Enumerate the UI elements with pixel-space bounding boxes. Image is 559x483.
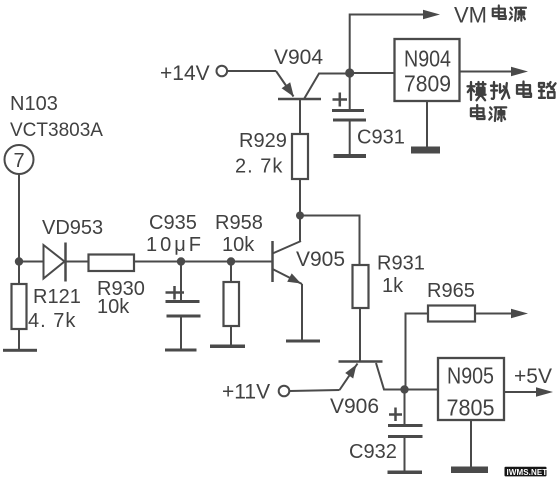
net +5V output arrow [504, 387, 553, 396]
ground under C932 [388, 471, 423, 475]
svg-text:2. 7k: 2. 7k [235, 156, 283, 178]
svg-text:4. 7k: 4. 7k [28, 310, 76, 332]
svg-text:10k: 10k [97, 296, 130, 318]
wire R930 to V905 base [134, 261, 273, 263]
svg-text:7: 7 [13, 150, 24, 172]
transistor V905 [273, 241, 346, 340]
R965 output arrow [475, 309, 528, 318]
svg-text:R958: R958 [215, 212, 263, 234]
pin 7 circle [5, 145, 34, 174]
svg-text:C935: C935 [149, 212, 197, 234]
wire node to diode [19, 261, 44, 263]
net name VM电源 [454, 3, 526, 28]
net label VM电源 arrow [350, 10, 440, 73]
net name 模拟电路 电源 [468, 82, 556, 121]
svg-text:C932: C932 [349, 441, 397, 463]
resistor R931 [353, 253, 425, 362]
svg-text:VM: VM [454, 3, 487, 28]
svg-text:10μF: 10μF [146, 234, 204, 256]
svg-text:R929: R929 [239, 130, 287, 152]
svg-text:R965: R965 [427, 280, 475, 302]
transistor V906 [330, 362, 405, 419]
regulator N904 7809 [395, 39, 460, 101]
svg-text:V906: V906 [330, 395, 379, 418]
svg-text:N905: N905 [447, 363, 494, 389]
terminal +14V [160, 62, 227, 85]
svg-text:R121: R121 [33, 286, 81, 308]
ground under R958 [210, 345, 245, 349]
output arrow 模拟电路电源 [460, 67, 529, 76]
wire node to R931 [300, 216, 360, 266]
node junction left [15, 257, 23, 265]
node junction V905 collector [296, 212, 304, 220]
svg-text:7809: 7809 [404, 71, 451, 97]
svg-text:+11V: +11V [222, 381, 270, 404]
capacitor C931 [332, 77, 405, 155]
node junction bottom [400, 385, 408, 393]
IC pin label N103 VCT3803A [10, 93, 103, 141]
svg-text:N103: N103 [10, 93, 58, 115]
resistor R929 [235, 130, 308, 241]
terminal +11V [222, 381, 289, 404]
node junction at top rail [345, 68, 354, 77]
svg-text:1k: 1k [382, 275, 404, 297]
wire +11V to V906 emitter [290, 390, 340, 391]
ground under N904 [411, 101, 440, 154]
svg-text:+5V: +5V [514, 365, 552, 388]
resistor R958 [215, 212, 263, 345]
transistor V904 [274, 46, 350, 134]
ground under R121 [3, 349, 37, 352]
node junction C935 [177, 257, 185, 265]
svg-text:7805: 7805 [447, 395, 495, 421]
svg-text:C931: C931 [357, 127, 405, 149]
wire pin7 down to node [18, 174, 20, 262]
ground under N905 [451, 420, 488, 473]
resistor R965 [406, 280, 476, 390]
svg-text:V904: V904 [274, 46, 323, 69]
capacitor C932 [349, 390, 423, 471]
capacitor C935 [146, 212, 204, 349]
ground under V905 emitter [286, 340, 320, 343]
svg-text:N904: N904 [404, 46, 451, 72]
node junction R958 [227, 257, 235, 265]
resistor R930 [89, 255, 145, 319]
svg-text:V905: V905 [296, 248, 345, 271]
diode VD953 [42, 217, 103, 282]
svg-text:IWMS.NET: IWMS.NET [507, 468, 548, 477]
svg-text:R931: R931 [377, 253, 425, 275]
resistor R121 [12, 265, 81, 349]
wire node to N904 [350, 72, 395, 74]
svg-text:VD953: VD953 [42, 217, 103, 239]
ground under C935 [165, 349, 197, 352]
wire node to N905 [405, 389, 439, 391]
regulator N905 7805 [438, 358, 504, 421]
svg-text:+14V: +14V [160, 62, 210, 85]
watermark IWMS.NET [505, 467, 548, 477]
ground under C931 [334, 154, 367, 158]
svg-text:VCT3803A: VCT3803A [10, 120, 103, 141]
svg-text:10k: 10k [222, 234, 255, 256]
wire +14V to V904 emitter [228, 70, 277, 72]
